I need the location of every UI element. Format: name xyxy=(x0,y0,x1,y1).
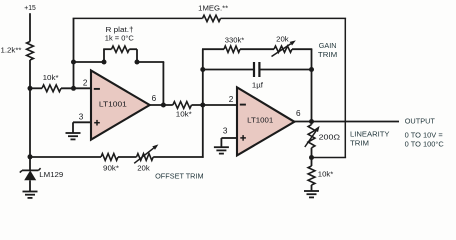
wire riser summing to top loop xyxy=(73,18,75,88)
wire 10k to U2 summing xyxy=(192,104,238,106)
ground U1 pin3 xyxy=(66,132,81,134)
U2 minus sign xyxy=(240,104,246,106)
svg-text:GAIN: GAIN xyxy=(319,41,337,50)
wire feedback riser to U1 output xyxy=(162,62,164,105)
node U2 summing junction xyxy=(200,103,205,108)
svg-text:20k: 20k xyxy=(276,37,289,44)
wire U2 pin3 stub xyxy=(221,137,237,139)
node A supply/10k junction xyxy=(28,86,33,91)
svg-text:LT1001: LT1001 xyxy=(247,118,273,125)
svg-text:1.2k**: 1.2k** xyxy=(1,45,22,54)
wire U1 output to 10k xyxy=(150,104,173,106)
wire top feedback line left xyxy=(73,17,203,19)
op-amp U2 LT1001 triangle xyxy=(237,87,294,155)
svg-text:2: 2 xyxy=(83,79,88,88)
wire offset trim line xyxy=(30,156,101,158)
ground U2 pin3 xyxy=(214,146,229,148)
wire 330k to 20k pot xyxy=(240,48,274,50)
wire Rplat top right xyxy=(129,48,137,50)
svg-text:10k*: 10k* xyxy=(318,170,334,179)
ground output divider xyxy=(304,190,319,192)
wire Rplat right stub down xyxy=(136,49,138,62)
svg-text:10k*: 10k* xyxy=(43,73,59,82)
potentiometer 20k offset xyxy=(137,154,154,161)
wire Rplat top left xyxy=(103,48,111,50)
wire Rplat left stub up xyxy=(103,49,105,62)
resistor 10k* ground leg (R7) xyxy=(308,166,315,185)
op-amp U1 LT1001 triangle xyxy=(91,71,150,140)
ground LM129 xyxy=(23,191,38,193)
svg-text:10k*: 10k* xyxy=(176,110,192,119)
wire 10k to ground xyxy=(311,185,313,191)
U1 plus sign xyxy=(94,122,100,124)
svg-text:200Ω: 200Ω xyxy=(319,132,341,141)
svg-text:+15: +15 xyxy=(24,3,36,12)
svg-text:LINEARITY: LINEARITY xyxy=(350,129,390,138)
wire cap line left xyxy=(203,69,253,71)
wire 90k to 20k pot xyxy=(118,156,137,158)
wire cap line right xyxy=(260,69,311,71)
svg-text:3: 3 xyxy=(79,113,84,122)
svg-text:R plat.†: R plat.† xyxy=(106,27,134,34)
node cap line right xyxy=(309,67,314,72)
resistor 1.2k** (R1) xyxy=(27,42,34,61)
wire U2 output line xyxy=(294,121,399,123)
svg-text:LM129: LM129 xyxy=(39,170,63,179)
wire linearity wiper line xyxy=(312,157,346,159)
svg-text:90k*: 90k* xyxy=(103,163,119,172)
svg-text:2: 2 xyxy=(229,95,234,104)
node linearity trim junction xyxy=(309,155,314,160)
node Rplat left terminal xyxy=(102,60,107,65)
svg-text:OFFSET TRIM: OFFSET TRIM xyxy=(155,172,204,181)
wire Rplat line left xyxy=(74,61,105,63)
svg-text:TRIM: TRIM xyxy=(318,50,337,59)
svg-text:1k = 0°C: 1k = 0°C xyxy=(105,35,134,43)
wire 20k pot to right riser xyxy=(292,48,312,50)
wire 10k to summing junction xyxy=(61,87,92,89)
resistor 90k* (R6) xyxy=(101,154,118,161)
wire 20k pot to riser xyxy=(153,156,203,158)
zener LM129 (D1) xyxy=(29,157,31,170)
node U2 output xyxy=(309,119,314,124)
wire U1 pin3 stub xyxy=(73,121,92,123)
potentiometer 200 ohm linearity xyxy=(311,122,313,125)
node feedback line left junction xyxy=(71,60,76,65)
svg-text:1µf: 1µf xyxy=(252,83,263,90)
svg-text:330k*: 330k* xyxy=(225,37,245,44)
svg-text:6: 6 xyxy=(296,109,301,118)
wire riser offset/gain x=203 xyxy=(202,49,204,158)
svg-text:TRIM: TRIM xyxy=(350,139,369,148)
svg-text:OUTPUT: OUTPUT xyxy=(405,116,436,125)
wire gain trim top line xyxy=(202,48,224,50)
wire right riser x=311.5 xyxy=(311,49,313,121)
node cap line left xyxy=(200,67,205,72)
svg-text:6: 6 xyxy=(152,94,157,103)
node B summing junction U1 xyxy=(71,86,76,91)
svg-text:1MEG.**: 1MEG.** xyxy=(198,6,228,13)
resistor 1MEG** (R3) xyxy=(203,15,221,21)
resistor 10k* interstage (R4) xyxy=(173,102,192,109)
wire Rplat line right xyxy=(137,61,164,63)
svg-text:0 TO 100°C: 0 TO 100°C xyxy=(405,139,444,148)
resistor 10k* input (R2) xyxy=(42,85,61,92)
wire supply node to LM129 node xyxy=(29,60,31,157)
svg-text:0 TO 10V =: 0 TO 10V = xyxy=(405,130,443,139)
U1 minus sign xyxy=(94,88,100,90)
svg-text:20k: 20k xyxy=(137,163,150,172)
capacitor 1uF plates xyxy=(253,62,255,77)
resistor R plat sensor xyxy=(112,46,130,52)
wire 1MEG riser down right side xyxy=(344,18,346,157)
svg-text:LT1001: LT1001 xyxy=(99,102,127,109)
wire to 10k ground leg xyxy=(311,158,313,167)
wire node A to 10k xyxy=(30,87,42,89)
node U1 output junction xyxy=(161,103,166,108)
wire +15 supply stem xyxy=(29,13,31,41)
wire top feedback line right xyxy=(221,17,347,19)
svg-text:3: 3 xyxy=(223,127,228,136)
U2 plus sign xyxy=(240,137,246,139)
node LM129 junction xyxy=(28,154,33,159)
resistor 330k* (R5) xyxy=(224,46,240,52)
node Rplat right terminal xyxy=(135,60,140,65)
potentiometer 20k gain xyxy=(274,46,292,52)
